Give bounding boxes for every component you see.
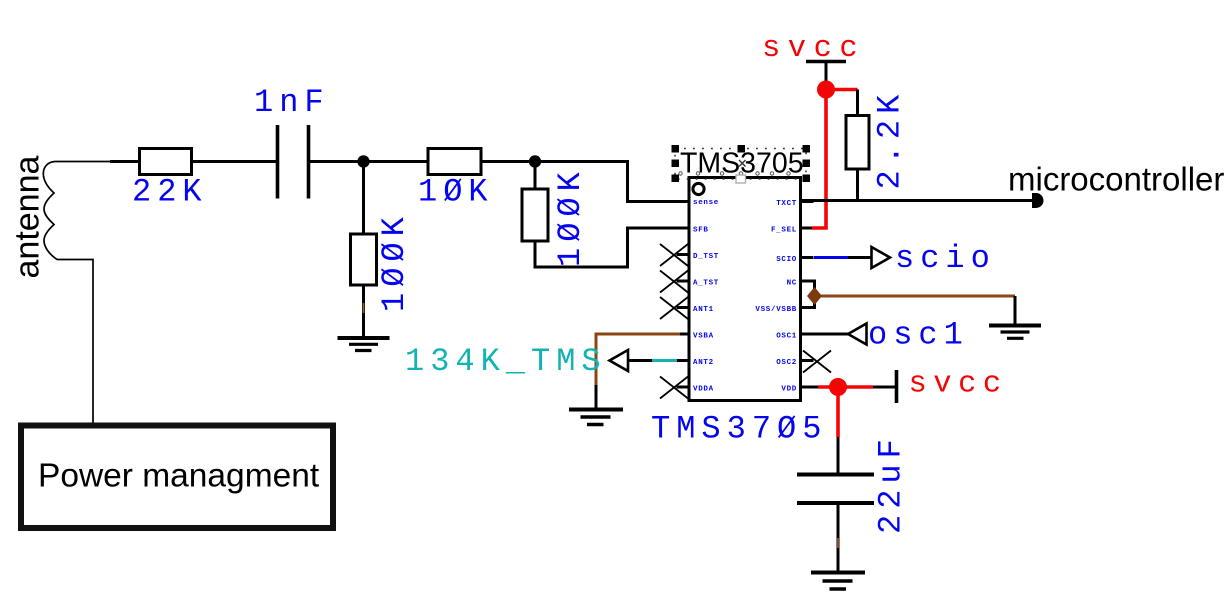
- wire R4 bottom to SFB pin: [535, 228, 689, 267]
- white center handle on IC top edge: [736, 175, 746, 183]
- selection dotted frame around TMS3705 label: [675, 149, 806, 180]
- VSS/VSBB stub bend: [801, 302, 815, 308]
- wire node B to bend: [535, 162, 689, 202]
- ground G5: [811, 573, 865, 590]
- black segment SCIO wire to arrow: [848, 256, 871, 259]
- svg-text:VDD: VDD: [781, 386, 797, 394]
- pin stubs left: [677, 202, 690, 388]
- svg-text:1ØØK: 1ØØK: [376, 211, 413, 312]
- red junction dot VDD: [829, 378, 847, 396]
- wire node B down to R4: [534, 162, 537, 190]
- svg-text:VDDA: VDDA: [693, 386, 714, 394]
- capacitor 22uF C2: [797, 475, 874, 504]
- wire R5 bottom to TXCT net: [856, 169, 859, 201]
- wire to svcc bar right: [873, 386, 895, 389]
- svg-text:sense: sense: [693, 199, 719, 207]
- svg-text:VSS/VSBB: VSS/VSBB: [755, 306, 797, 314]
- red wire VDD down to C2: [836, 387, 840, 437]
- brown wire VSBA: [596, 334, 680, 385]
- red junction dot svcc: [817, 81, 835, 99]
- svg-text:D_TST: D_TST: [693, 253, 719, 261]
- small x marker in label center: [739, 160, 746, 167]
- power management box: [21, 426, 333, 529]
- red wire svcc node to F_SEL: [812, 87, 826, 228]
- resistor 100K R4: [522, 189, 548, 241]
- svg-text:microcontroller: microcontroller: [1008, 161, 1224, 198]
- svg-text:NC: NC: [787, 280, 797, 288]
- no-connect X on VDDA: [660, 377, 688, 399]
- wire VSBA brown to ground: [595, 385, 598, 408]
- svg-text:A_TST: A_TST: [693, 280, 719, 288]
- blue segment on SCIO wire: [814, 256, 848, 259]
- cyan segment on ANT2 wire: [652, 359, 676, 362]
- ground G1: [338, 338, 390, 351]
- node A junction dot: [357, 155, 369, 167]
- svg-text:antenna: antenna: [9, 156, 47, 279]
- svg-text:TMS3705: TMS3705: [680, 148, 804, 180]
- svg-text:svcc: svcc: [909, 368, 1008, 402]
- svg-text:scio: scio: [895, 240, 996, 277]
- no-connect X on D_TST: [660, 244, 688, 266]
- selection handles: [672, 145, 811, 182]
- wire antenna top to R1: [55, 161, 112, 163]
- svcc power bar symbol: [806, 60, 846, 64]
- IC U1 TMS3705 body: [689, 178, 801, 401]
- wire node A to R2 10K: [364, 160, 429, 163]
- brown tick on C2 ground wire: [837, 538, 839, 548]
- svg-text:ANT2: ANT2: [693, 359, 714, 367]
- character anchor dots under TMS3705: [679, 172, 790, 175]
- svg-text:22K: 22K: [132, 174, 208, 211]
- svg-text:TXCT: TXCT: [776, 200, 797, 208]
- microcontroller connector blob: [1032, 193, 1044, 208]
- no-connect X on ANT1: [660, 297, 688, 319]
- svg-text:1ØK: 1ØK: [418, 174, 494, 211]
- ground G4: [989, 326, 1041, 339]
- wire ANT2 to arrow: [628, 359, 654, 362]
- red wire svcc node to R5: [826, 88, 858, 92]
- antenna coil: [43, 162, 57, 260]
- wire R5 top: [856, 90, 859, 116]
- wire C1 to node A: [310, 160, 364, 163]
- svcc bar symbol right: [895, 370, 899, 403]
- wire red to C2 top: [837, 437, 840, 473]
- node B junction dot: [529, 155, 541, 167]
- pin stubs right: [801, 202, 819, 388]
- resistor 2.2K R5: [846, 116, 869, 170]
- ground G3: [569, 410, 623, 425]
- svg-text:134K_TMS: 134K_TMS: [405, 343, 607, 380]
- svg-text:TMS37Ø5: TMS37Ø5: [651, 411, 827, 448]
- wire R2 to node B: [481, 160, 535, 163]
- no-connect X on A_TST: [660, 271, 688, 293]
- svg-text:22uF: 22uF: [873, 433, 910, 534]
- wire OSC1 to arrow: [801, 333, 849, 336]
- svg-text:SCIO: SCIO: [776, 256, 797, 264]
- svg-text:ANT1: ANT1: [693, 306, 714, 314]
- wire R3 to ground: [362, 285, 365, 337]
- wire node A down to R3: [362, 162, 365, 235]
- svg-text:VSBA: VSBA: [693, 333, 714, 341]
- osc1 arrow: [848, 324, 867, 345]
- wire R1 to C1: [192, 160, 277, 163]
- brown wire NC to ground: [815, 295, 1016, 298]
- svg-text:1nF: 1nF: [254, 84, 330, 121]
- brown junction diamond: [807, 287, 822, 305]
- svg-text:Power managment: Power managment: [38, 458, 320, 495]
- no-connect X on OSC2: [803, 351, 831, 373]
- red wire VDD to svcc: [818, 385, 873, 389]
- NC stub bend: [801, 281, 815, 290]
- brown tick on R3 ground wire: [363, 303, 365, 313]
- svg-text:1ØØK: 1ØØK: [552, 166, 589, 267]
- svg-text:OSC1: OSC1: [776, 333, 797, 341]
- wire down to ground G4: [1014, 296, 1017, 324]
- svg-text:SFB: SFB: [693, 227, 709, 235]
- pin 1 marker circle: [693, 183, 704, 194]
- wire svcc bar down: [825, 62, 828, 83]
- wire C2 bottom to ground: [837, 503, 840, 571]
- svg-text:F_SEL: F_SEL: [771, 227, 797, 235]
- scio arrow: [872, 247, 891, 268]
- wire TXCT to microcontroller: [801, 199, 1036, 202]
- svg-text:2.2K: 2.2K: [872, 89, 909, 190]
- svg-text:osc1: osc1: [868, 317, 969, 354]
- svg-text:OSC2: OSC2: [776, 359, 797, 367]
- resistor 10K R2: [428, 149, 481, 175]
- capacitor 1nF: [278, 125, 309, 199]
- resistor 100K R3: [351, 234, 377, 285]
- resistor 22K: [140, 149, 192, 175]
- 134K_TMS arrow: [610, 350, 629, 371]
- wire antenna bottom to power box: [57, 260, 93, 424]
- wire stub into R1: [110, 160, 139, 163]
